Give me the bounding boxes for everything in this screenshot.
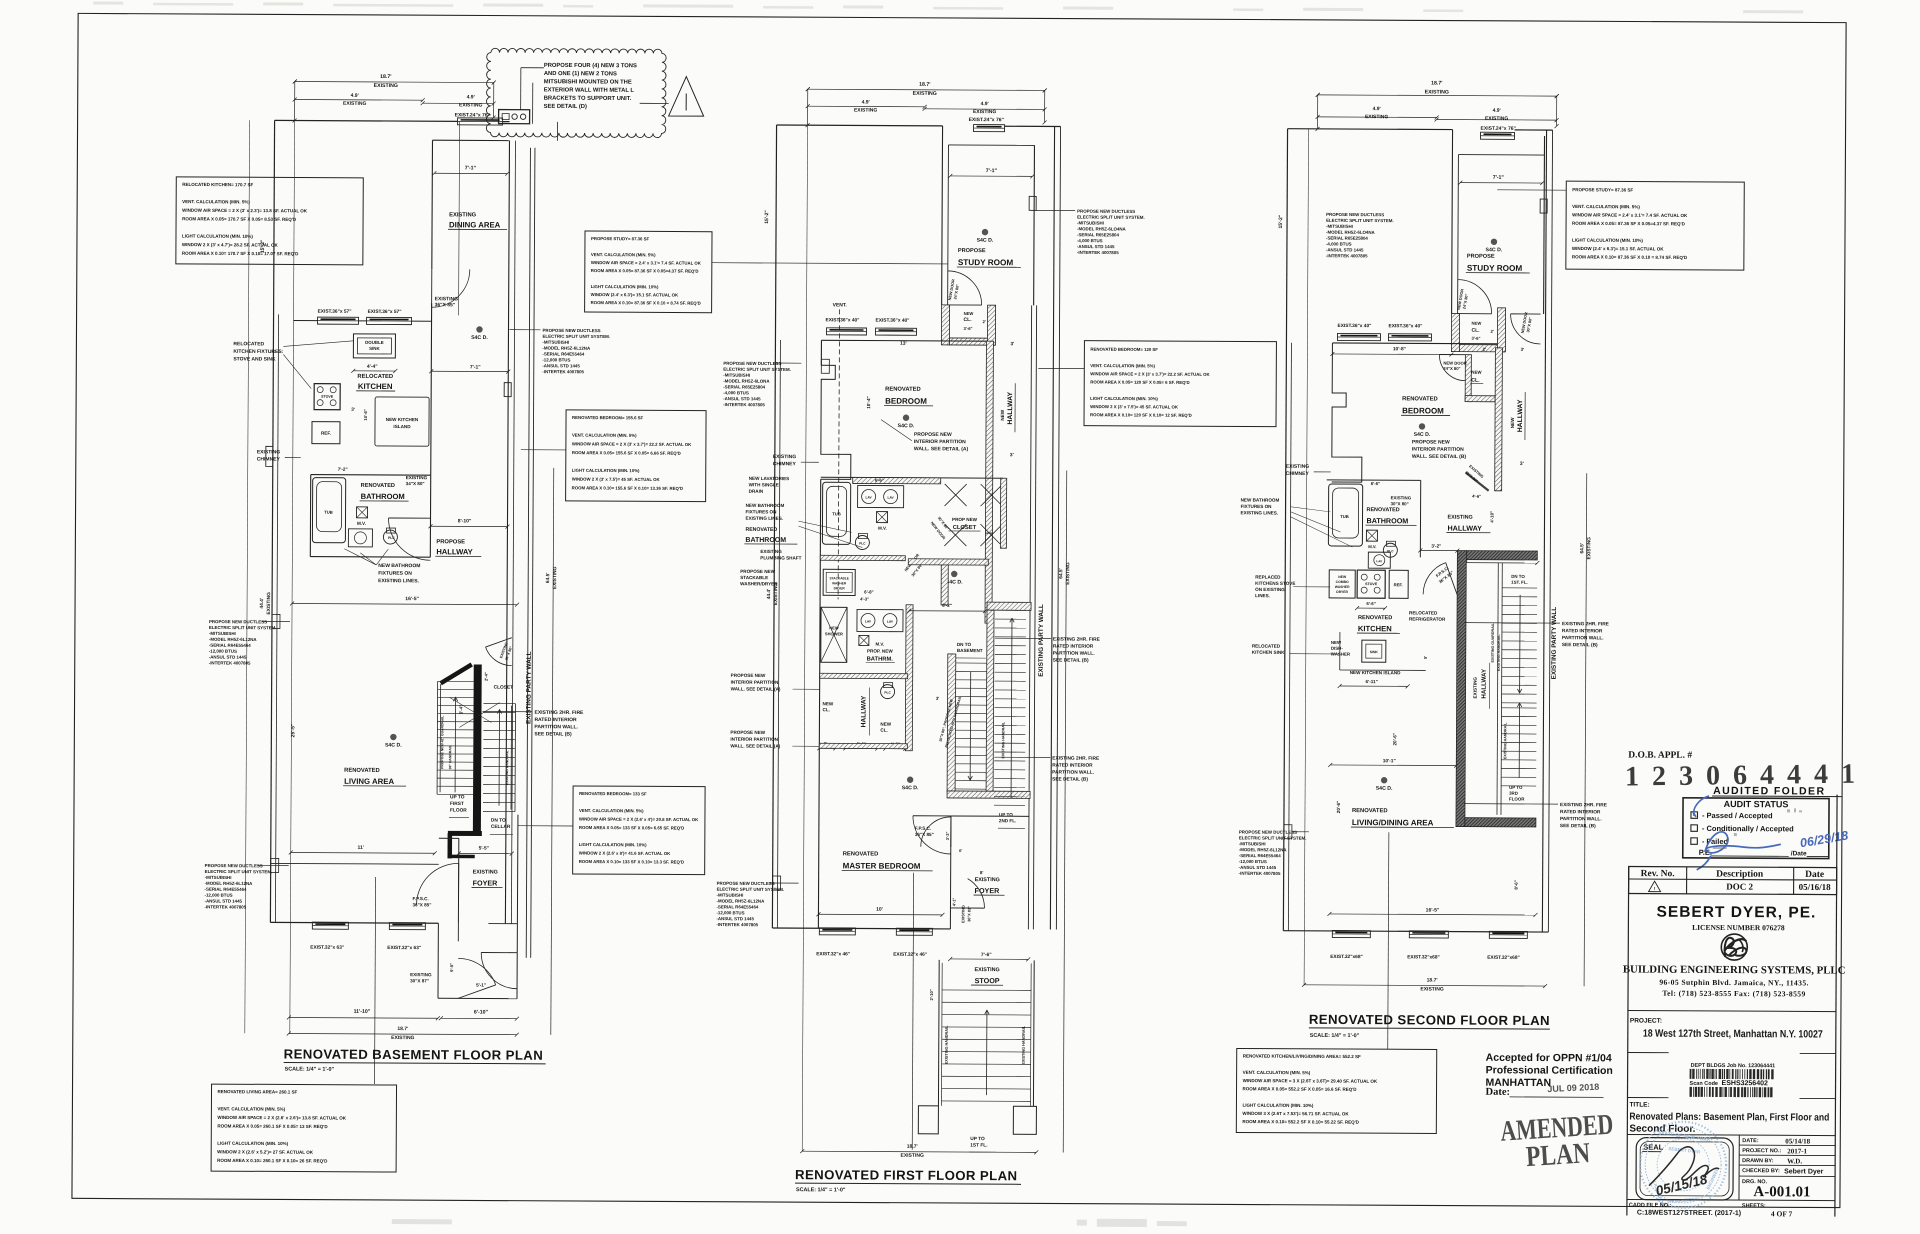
svg-text:64.5': 64.5' xyxy=(1579,543,1585,554)
svg-text:-MITSUBISHI: -MITSUBISHI xyxy=(1077,220,1104,225)
svg-text:NEW KITCHEN: NEW KITCHEN xyxy=(386,417,419,422)
title block right column rows xyxy=(1738,1135,1740,1200)
study closet walls hatched xyxy=(941,305,949,345)
svg-text:ROOM AREA X 0.05= 133 SF X 0.0: ROOM AREA X 0.05= 133 SF X 0.05= 6.65 SF… xyxy=(579,825,684,831)
svg-text:CHECKED BY:: CHECKED BY: xyxy=(1742,1168,1780,1174)
svg-text:3': 3' xyxy=(936,696,940,701)
svg-text:WASHER/DRYER: WASHER/DRYER xyxy=(740,581,778,586)
svg-text:EXISTING: EXISTING xyxy=(975,877,1000,883)
svg-text:2'-10": 2'-10" xyxy=(929,989,934,1000)
svg-text:18.7': 18.7' xyxy=(907,1144,918,1150)
svg-text:-MITSUBISHI: -MITSUBISHI xyxy=(717,893,744,898)
svg-text:-MITSUBISHI: -MITSUBISHI xyxy=(205,875,232,880)
basement stair treads up-run xyxy=(437,681,474,794)
middle stair up run xyxy=(995,609,1026,611)
svg-text:A-001.01: A-001.01 xyxy=(1753,1184,1810,1200)
svg-text:EXISTING: EXISTING xyxy=(459,102,482,108)
svg-text:Accepted for OPPN #1/04: Accepted for OPPN #1/04 xyxy=(1486,1052,1612,1065)
svg-text:PARTITION WALL.: PARTITION WALL. xyxy=(1560,816,1602,822)
washer dryer right xyxy=(1329,570,1355,598)
stoop posts xyxy=(918,1106,938,1134)
svg-text:VENT.: VENT. xyxy=(833,302,848,308)
svg-text:-SERIAL R65E25804: -SERIAL R65E25804 xyxy=(1326,236,1368,241)
svg-text:10'-4": 10'-4" xyxy=(866,396,871,408)
svg-text:-MITSUBISHI: -MITSUBISHI xyxy=(1239,841,1266,846)
svg-text:WINDOW 3 X (2.6T x 7.53')= 56.: WINDOW 3 X (2.6T x 7.53')= 56.71 SF. ACT… xyxy=(1242,1111,1349,1117)
svg-text:NEW: NEW xyxy=(823,701,834,706)
svg-text:CHIMNEY: CHIMNEY xyxy=(257,457,281,463)
svg-text:ELECTRIC SPLIT UNIT SYSTEM.: ELECTRIC SPLIT UNIT SYSTEM. xyxy=(542,334,610,339)
svg-text:VENT. CALCULATION (MIN. 5%): VENT. CALCULATION (MIN. 5%) xyxy=(217,1106,285,1111)
svg-text:8'-6": 8'-6" xyxy=(1514,880,1519,890)
svg-text:-MODEL RH5Z-6LO4NA: -MODEL RH5Z-6LO4NA xyxy=(1077,226,1127,231)
svg-text:CHIMNEY: CHIMNEY xyxy=(1286,471,1310,477)
right bottom windows xyxy=(1332,930,1370,937)
svg-text:UP TO: UP TO xyxy=(450,794,465,800)
master bedroom section line xyxy=(912,873,913,1150)
svg-text:EXISTING HANDRAIL: EXISTING HANDRAIL xyxy=(1001,721,1005,758)
svg-text:SEE DETAIL (B): SEE DETAIL (B) xyxy=(1052,776,1088,782)
svg-text:34"X 80": 34"X 80" xyxy=(406,481,425,486)
blue pen marks audit xyxy=(1694,796,1709,816)
basement stair heavy walls xyxy=(441,664,472,683)
svg-text:LIGHT CALCULATION (MIN. 10%): LIGHT CALCULATION (MIN. 10%) xyxy=(572,468,640,473)
svg-text:5': 5' xyxy=(1423,656,1428,659)
svg-text:MITSUBISHI MOUNTED ON THE: MITSUBISHI MOUNTED ON THE xyxy=(544,79,632,85)
right plan top dims xyxy=(1317,95,1319,129)
svg-text:STOVE: STOVE xyxy=(1365,582,1378,586)
svg-text:ON EXISTING: ON EXISTING xyxy=(1255,587,1285,592)
svg-text:-MODEL RH5Z-6L12NA: -MODEL RH5Z-6L12NA xyxy=(209,637,258,642)
svg-text:RENOVATED KITCHEN/LIVING/DININ: RENOVATED KITCHEN/LIVING/DINING AREA= 55… xyxy=(1243,1053,1361,1059)
svg-text:PROJECT:: PROJECT: xyxy=(1630,1018,1662,1025)
svg-text:PROPOSE STUDY= 87.36 SF: PROPOSE STUDY= 87.36 SF xyxy=(591,236,650,241)
svg-text:INTERIOR PARTITION: INTERIOR PARTITION xyxy=(730,737,778,742)
svg-text:ELECTRIC SPLIT UNIT SYSTEM.: ELECTRIC SPLIT UNIT SYSTEM. xyxy=(723,367,791,372)
svg-text:FLOOR: FLOOR xyxy=(1509,796,1525,801)
svg-text:-MITSUBISHI: -MITSUBISHI xyxy=(209,631,236,636)
svg-text:ELECTRIC SPLIT UNIT SYSTEM.: ELECTRIC SPLIT UNIT SYSTEM. xyxy=(717,887,785,892)
svg-text:PROPOSE: PROPOSE xyxy=(1467,254,1495,260)
svg-text:6'-4": 6'-4" xyxy=(458,705,463,715)
svg-text:WINDOW AIR SPACE = 2 X (3' x 3: WINDOW AIR SPACE = 2 X (3' x 3.7')= 22.2… xyxy=(1090,371,1210,377)
svg-text:EXISTING: EXISTING xyxy=(410,972,432,977)
middle MV2 and bathrm label xyxy=(859,635,869,645)
calc box renovated living area xyxy=(211,1084,396,1172)
svg-text:SCALE: 1/4" = 1'-0": SCALE: 1/4" = 1'-0" xyxy=(1310,1033,1360,1039)
svg-text:3'-6": 3'-6" xyxy=(1471,336,1480,341)
svg-text:/Date: /Date xyxy=(1791,850,1807,857)
svg-text:EXISTING HANDRAIL: EXISTING HANDRAIL xyxy=(1497,634,1501,671)
svg-text:-ANSUL STD 1445: -ANSUL STD 1445 xyxy=(209,654,247,659)
svg-text:ROOM AREA X 0.10= 87.36 SF X 0: ROOM AREA X 0.10= 87.36 SF X 0.10 = 8.74… xyxy=(591,300,701,306)
leader living area to calc box xyxy=(375,877,376,1084)
svg-text:EXISTING 2HR. FIRE: EXISTING 2HR. FIRE xyxy=(1053,636,1101,642)
svg-text:VENT. CALCULATION (MIN. 5%): VENT. CALCULATION (MIN. 5%) xyxy=(572,433,637,438)
svg-text:ROOM AREA X 0.10= 260.1 SF X 0: ROOM AREA X 0.10= 260.1 SF X 0.10= 26 SF… xyxy=(217,1158,328,1164)
svg-text:RENOVATED: RENOVATED xyxy=(361,483,395,489)
svg-text:RELOCATED: RELOCATED xyxy=(233,341,264,347)
svg-text:EXISTING LINES.: EXISTING LINES. xyxy=(746,516,784,521)
dining area door arc xyxy=(432,269,470,307)
ref right xyxy=(1389,570,1408,598)
svg-text:PROPOSE NEW DUCTLESS: PROPOSE NEW DUCTLESS xyxy=(717,881,775,886)
svg-text:NEW: NEW xyxy=(1471,370,1482,375)
middle shower xyxy=(821,607,847,662)
medicine vanity xyxy=(357,507,368,518)
svg-text:-MITSUBISHI: -MITSUBISHI xyxy=(1326,224,1353,229)
svg-text:ROOM AREA X 0.05= 87.36 SF X 0: ROOM AREA X 0.05= 87.36 SF X 0.05=4.37 S… xyxy=(591,268,699,274)
svg-text:4'-3": 4'-3" xyxy=(860,596,869,601)
svg-text:PARTITION WALL.: PARTITION WALL. xyxy=(534,724,578,730)
svg-text:DRAIN: DRAIN xyxy=(749,489,764,494)
svg-text:VENT. CALCULATION (MIN. 5%): VENT. CALCULATION (MIN. 5%) xyxy=(1572,204,1640,209)
svg-text:NEW BATHROOM: NEW BATHROOM xyxy=(746,503,785,508)
svg-text:LIVING/DINING AREA: LIVING/DINING AREA xyxy=(1352,818,1434,827)
svg-text:ROOM AREA X 0.05= 120 SF X 0.0: ROOM AREA X 0.05= 120 SF X 0.05= 6 SF. R… xyxy=(1090,379,1189,385)
right tub xyxy=(1328,484,1362,546)
svg-text:EXIST.36"x 40": EXIST.36"x 40" xyxy=(1389,323,1423,329)
svg-text:NEW: NEW xyxy=(1000,409,1005,420)
svg-text:SEE DETAIL (D): SEE DETAIL (D) xyxy=(544,104,587,110)
svg-text:RATED INTERIOR: RATED INTERIOR xyxy=(1053,643,1094,649)
svg-text:RENOVATED: RENOVATED xyxy=(843,851,879,857)
existing foyer xyxy=(439,837,459,839)
svg-text:4.9': 4.9' xyxy=(1493,108,1501,114)
svg-text:EXIST.24"x 76": EXIST.24"x 76" xyxy=(1481,126,1517,132)
stove xyxy=(314,384,340,410)
svg-text:RATED INTERIOR: RATED INTERIOR xyxy=(1562,628,1603,634)
middle bottom windows xyxy=(819,928,855,935)
svg-text:-MODEL RH5Z-6LONA: -MODEL RH5Z-6LONA xyxy=(723,378,770,383)
svg-text:36"X 85": 36"X 85" xyxy=(915,832,934,837)
svg-text:8': 8' xyxy=(980,870,984,875)
svg-text:EXISTING: EXISTING xyxy=(1586,537,1592,560)
svg-text:18.7': 18.7' xyxy=(380,74,391,80)
svg-text:-ANSUL STD 1445: -ANSUL STD 1445 xyxy=(716,916,754,921)
svg-text:6'-6": 6'-6" xyxy=(875,478,884,483)
svg-text:W.D.: W.D. xyxy=(1787,1157,1802,1165)
svg-text:10'-8": 10'-8" xyxy=(1393,346,1406,352)
svg-text:LIGHT CALCULATION (MIN. 10%): LIGHT CALCULATION (MIN. 10%) xyxy=(1242,1103,1313,1108)
svg-text:EXISTING: EXISTING xyxy=(913,91,937,97)
svg-text:- Passed / Accepted: - Passed / Accepted xyxy=(1702,811,1773,820)
svg-text:64.5': 64.5' xyxy=(545,573,551,584)
svg-text:S4C D.: S4C D. xyxy=(898,423,915,429)
audit status box xyxy=(1683,798,1829,859)
svg-text:S4C D.: S4C D. xyxy=(1414,432,1431,438)
svg-text:HALLWAY: HALLWAY xyxy=(1447,524,1482,533)
right study door + closet xyxy=(1458,280,1492,314)
svg-text:HALLWAY: HALLWAY xyxy=(436,547,472,556)
svg-text:NEW: NEW xyxy=(1472,321,1482,326)
svg-text:LAV: LAV xyxy=(866,496,873,500)
svg-text:NEW: NEW xyxy=(1338,575,1347,579)
svg-text:EXIST.32"x68": EXIST.32"x68" xyxy=(1407,954,1440,960)
svg-text:VENT. CALCULATION (MIN. 5%): VENT. CALCULATION (MIN. 5%) xyxy=(1090,363,1155,368)
middle MV xyxy=(876,512,887,523)
kitchen island right xyxy=(1339,632,1341,670)
svg-text:-INTERTEK 4007805: -INTERTEK 4007805 xyxy=(716,922,758,927)
svg-text:LAV: LAV xyxy=(1376,559,1382,563)
svg-text:EXISTING HANDRAIL: EXISTING HANDRAIL xyxy=(1503,722,1507,759)
svg-text:11'-10": 11'-10" xyxy=(354,1009,371,1015)
svg-text:RENOVATED BEDROOM= 120 SF: RENOVATED BEDROOM= 120 SF xyxy=(1090,347,1158,352)
svg-text:5'-1": 5'-1" xyxy=(476,982,486,987)
svg-text:KITCHEN: KITCHEN xyxy=(1358,624,1392,633)
svg-text:EXISTING: EXISTING xyxy=(1286,464,1309,470)
leader living dining to calc box xyxy=(1388,832,1389,1049)
svg-text:WINDOW (2.4' x 6.3')= 15.1 SF.: WINDOW (2.4' x 6.3')= 15.1 SF. ACTUAL OK xyxy=(1572,246,1664,251)
middle bathroom1 xyxy=(821,476,941,479)
svg-text:-12,000 BTUS: -12,000 BTUS xyxy=(209,649,237,654)
svg-text:-INTERTEK 4007805: -INTERTEK 4007805 xyxy=(209,660,251,665)
right bathroom xyxy=(1327,479,1421,481)
revision triangle xyxy=(1649,881,1661,892)
svg-text:EXISTING: EXISTING xyxy=(473,869,498,875)
svg-text:-ANSUL STD 1445: -ANSUL STD 1445 xyxy=(542,363,580,368)
svg-text:-ANSUL STD 1445: -ANSUL STD 1445 xyxy=(1326,247,1364,252)
svg-text:ESHS3256402: ESHS3256402 xyxy=(1722,1080,1768,1087)
svg-text:6'-11": 6'-11" xyxy=(1366,679,1378,684)
svg-text:CLOSET: CLOSET xyxy=(494,685,514,691)
svg-text:3': 3' xyxy=(1011,341,1015,347)
svg-text:RENOVATED: RENOVATED xyxy=(1367,507,1400,513)
svg-text:ISLAND: ISLAND xyxy=(393,424,411,429)
svg-text:EXISTING 2HR. FIRE: EXISTING 2HR. FIRE xyxy=(1562,621,1610,627)
svg-text:EXISTING: EXISTING xyxy=(1425,89,1449,95)
svg-text:6'-10": 6'-10" xyxy=(474,1009,489,1015)
right bedroom xyxy=(1332,342,1497,345)
svg-text:13': 13' xyxy=(900,341,907,347)
scanner smudge bottom xyxy=(392,1215,1187,1228)
svg-text:9'-5": 9'-5" xyxy=(449,963,454,972)
svg-text:ELECTRIC SPLIT UNIT SYSTEM.: ELECTRIC SPLIT UNIT SYSTEM. xyxy=(1239,835,1307,840)
svg-text:18.7': 18.7' xyxy=(1427,977,1438,983)
svg-text:4.9': 4.9' xyxy=(862,99,870,105)
svg-text:-12,000 BTUS: -12,000 BTUS xyxy=(1239,859,1267,864)
svg-text:EXISTING: EXISTING xyxy=(1473,677,1478,699)
svg-text:EXISTING HANDRAIL: EXISTING HANDRAIL xyxy=(945,1025,949,1064)
svg-text:PARTITION WALL.: PARTITION WALL. xyxy=(1562,635,1604,641)
svg-text:INTERIOR PARTITION: INTERIOR PARTITION xyxy=(1412,447,1464,453)
S4C detector left upper xyxy=(476,326,482,332)
svg-text:Scan Code: Scan Code xyxy=(1690,1081,1718,1087)
svg-text:WASHER: WASHER xyxy=(1335,585,1350,589)
basement bottom windows xyxy=(312,922,348,929)
svg-text:LIGHT CALCULATION (MIN. 10%): LIGHT CALCULATION (MIN. 10%) xyxy=(182,234,253,239)
middle bathroom1 bottom wall xyxy=(820,556,905,558)
svg-text:3': 3' xyxy=(1521,347,1525,352)
right angled door xyxy=(1466,473,1489,491)
svg-text:16'-5": 16'-5" xyxy=(405,596,419,602)
svg-text:RENOVATED: RENOVATED xyxy=(1352,808,1388,814)
svg-text:EXIST.32"x68": EXIST.32"x68" xyxy=(1330,954,1363,960)
svg-text:PROPOSE STUDY= 87.36 SF: PROPOSE STUDY= 87.36 SF xyxy=(1572,187,1633,192)
svg-text:DEPT BLDGS Job No. 123064441: DEPT BLDGS Job No. 123064441 xyxy=(1691,1063,1776,1069)
calc box relocated kitchen xyxy=(176,177,363,265)
svg-text:CADD FILE NO.:: CADD FILE NO.: xyxy=(1629,1203,1672,1209)
svg-text:2': 2' xyxy=(983,319,986,324)
svg-text:EXISTING: EXISTING xyxy=(1420,986,1443,992)
svg-text:RATED INTERIOR: RATED INTERIOR xyxy=(1560,809,1601,815)
svg-text:-SERIAL R65E25804: -SERIAL R65E25804 xyxy=(1077,232,1119,237)
svg-text:-MODEL RH5Z-6LO4NA: -MODEL RH5Z-6LO4NA xyxy=(1326,230,1376,235)
svg-text:3': 3' xyxy=(1520,461,1524,467)
svg-text:25'-5": 25'-5" xyxy=(290,723,296,737)
left plan dimension 4.9 EXISTING x2 xyxy=(295,99,423,102)
svg-text:EXISTING: EXISTING xyxy=(1391,495,1412,500)
middle stair dn run xyxy=(947,654,956,792)
svg-text:RELOCATED: RELOCATED xyxy=(357,374,393,380)
svg-text:WINDOW (2.4' x 6.3')= 15.1 SF.: WINDOW (2.4' x 6.3')= 15.1 SF. ACTUAL OK xyxy=(591,292,679,297)
svg-text:WINDOW 2 X (2.6' x 8')= 41.6 S: WINDOW 2 X (2.6' x 8')= 41.6 SF. ACTUAL … xyxy=(579,851,671,856)
svg-text:C:18WEST127STREET. (2017-1): C:18WEST127STREET. (2017-1) xyxy=(1637,1210,1741,1218)
svg-text:30"X 80": 30"X 80" xyxy=(1391,501,1409,506)
svg-text:SEE DETAIL (B): SEE DETAIL (B) xyxy=(1560,823,1596,829)
svg-text:RELOCATED: RELOCATED xyxy=(1409,610,1438,615)
svg-text:NEW DOOR: NEW DOOR xyxy=(1443,361,1467,366)
svg-text:SINK: SINK xyxy=(369,346,380,351)
svg-text:NEW: NEW xyxy=(1331,640,1342,645)
svg-text:RELOCATED KITCHEN= 170.7 SF: RELOCATED KITCHEN= 170.7 SF xyxy=(182,182,253,187)
svg-text:-INTERTEK 4007805: -INTERTEK 4007805 xyxy=(1077,250,1119,255)
renovated living area xyxy=(390,734,396,740)
svg-text:-INTERTEK 4007805: -INTERTEK 4007805 xyxy=(1239,871,1281,876)
svg-text:MASTER BEDROOM: MASTER BEDROOM xyxy=(843,861,921,870)
svg-text:-4,000 BTUS: -4,000 BTUS xyxy=(1077,238,1103,243)
svg-text:SEBERT DYER, PE.: SEBERT DYER, PE. xyxy=(1656,904,1816,922)
svg-text:BRACKETS TO SUPPORT UNIT.: BRACKETS TO SUPPORT UNIT. xyxy=(544,96,632,102)
svg-text:ROOM AREA X 0.10= 120 SF X 0.1: ROOM AREA X 0.10= 120 SF X 0.10= 12 SF. … xyxy=(1090,412,1192,418)
scanner noise top xyxy=(93,1,1803,13)
svg-text:WINDOW AIR SPACE = 2.4' x 3.1': WINDOW AIR SPACE = 2.4' x 3.1'= 7.4 SF. … xyxy=(591,260,702,266)
svg-text:FIXTURES ON: FIXTURES ON xyxy=(746,509,778,514)
svg-text:4'-4": 4'-4" xyxy=(367,364,378,370)
svg-text:PROPOSE NEW DUCTLESS: PROPOSE NEW DUCTLESS xyxy=(1077,209,1135,214)
right stair treads xyxy=(1497,563,1498,815)
condenser unit on exterior wall xyxy=(499,110,530,124)
svg-text:18.7': 18.7' xyxy=(919,82,930,88)
svg-text:VENT. CALCULATION (MIN. 5%): VENT. CALCULATION (MIN. 5%) xyxy=(182,199,250,204)
svg-text:WINDOW AIR SPACE = 3 X (2.6T x: WINDOW AIR SPACE = 3 X (2.6T x 3.6T)= 29… xyxy=(1243,1078,1378,1084)
svg-text:S4C D.: S4C D. xyxy=(902,785,919,791)
svg-text:STOVE AND SINK: STOVE AND SINK xyxy=(233,356,276,362)
title block outer borders xyxy=(1627,867,1629,1216)
svg-text:AND ONE (1) NEW 2 TONS: AND ONE (1) NEW 2 TONS xyxy=(544,71,617,77)
svg-text:BUILDING ENGINEERING SYSTEMS,: BUILDING ENGINEERING SYSTEMS, PLLC xyxy=(1623,963,1846,976)
svg-text:-INTERTEK 4007805: -INTERTEK 4007805 xyxy=(542,369,584,374)
toilet xyxy=(383,530,397,544)
svg-text:3'-2": 3'-2" xyxy=(1431,543,1441,548)
svg-text:EXISTING: EXISTING xyxy=(854,107,877,113)
svg-text:FIRST: FIRST xyxy=(450,801,464,807)
svg-text:ROOM AREA X 0.05= 170.7 SF X 0: ROOM AREA X 0.05= 170.7 SF X 0.05= 8.53 … xyxy=(182,216,297,222)
svg-text:HALLWAY: HALLWAY xyxy=(1007,391,1014,424)
svg-text:STUDY ROOM: STUDY ROOM xyxy=(1467,264,1523,273)
svg-text:3': 3' xyxy=(1010,452,1014,458)
svg-text:EXISTING: EXISTING xyxy=(961,905,965,923)
calc box renovated bedroom 155.6 xyxy=(566,410,706,502)
svg-text:10': 10' xyxy=(876,907,883,913)
kitchen right wall xyxy=(430,303,433,475)
svg-text:05/16/18: 05/16/18 xyxy=(1799,882,1832,892)
left plan rear window 24x76 xyxy=(458,118,503,125)
svg-text:PROPOSE NEW: PROPOSE NEW xyxy=(731,673,766,678)
svg-text:LICENSE NUMBER 076278: LICENSE NUMBER 076278 xyxy=(1692,923,1785,932)
svg-text:SHEETS:: SHEETS: xyxy=(1742,1203,1766,1209)
svg-text:CL.: CL. xyxy=(964,317,973,323)
svg-text:18.7': 18.7' xyxy=(397,1026,408,1032)
svg-text:RENOVATED BASEMENT FLOOR PLAN: RENOVATED BASEMENT FLOOR PLAN xyxy=(284,1046,544,1062)
svg-text:4'-10": 4'-10" xyxy=(1490,511,1495,523)
svg-text:BASEMENT: BASEMENT xyxy=(957,648,983,653)
svg-text:HALLWAY: HALLWAY xyxy=(1481,668,1488,699)
middle bedroom walls xyxy=(821,339,987,342)
svg-text:PLC: PLC xyxy=(884,691,891,695)
svg-text:EXISTING: EXISTING xyxy=(773,454,796,460)
svg-text:PROPOSE NEW DUCTLESS: PROPOSE NEW DUCTLESS xyxy=(542,328,600,333)
svg-text:05/15/18: 05/15/18 xyxy=(1654,1171,1709,1198)
svg-text:RENOVATED SECOND FLOOR PLAN: RENOVATED SECOND FLOOR PLAN xyxy=(1309,1012,1550,1028)
svg-text:EXIST.36"x 40": EXIST.36"x 40" xyxy=(1338,323,1372,329)
svg-text:WINDOW AIR SPACE = 2 X (3' x 3: WINDOW AIR SPACE = 2 X (3' x 3.7')= 22.2… xyxy=(572,441,692,447)
svg-text:-SERIAL R64E55464: -SERIAL R64E55464 xyxy=(205,887,247,892)
svg-text:15'-2": 15'-2" xyxy=(1278,214,1284,228)
svg-text:REF.: REF. xyxy=(1394,582,1403,587)
svg-text:4'-6": 4'-6" xyxy=(1472,494,1481,499)
svg-text:8'-10": 8'-10" xyxy=(458,518,472,524)
svg-text:STACKABLE: STACKABLE xyxy=(829,576,848,580)
svg-text:CL.: CL. xyxy=(880,728,887,733)
svg-text:3RD: 3RD xyxy=(1509,791,1518,796)
svg-text:TUB: TUB xyxy=(324,510,333,515)
svg-text:PROPOSE NEW DUCTLESS: PROPOSE NEW DUCTLESS xyxy=(1326,212,1384,217)
svg-text:EXISTING: EXISTING xyxy=(449,212,477,218)
svg-text:WINDOW AIR SPACE = 2 X (3' x 2: WINDOW AIR SPACE = 2 X (3' x 2.3')= 13.8… xyxy=(182,208,308,214)
svg-text:6'-6": 6'-6" xyxy=(1371,481,1381,486)
svg-text:EXISTING: EXISTING xyxy=(1485,116,1508,122)
svg-text:-12,000 BTUS: -12,000 BTUS xyxy=(716,910,744,915)
svg-text:M.V.: M.V. xyxy=(357,521,366,526)
vestibule door arcs xyxy=(458,958,496,984)
svg-text:WINDOW 2 X (3' x 4.7')= 28.2 S: WINDOW 2 X (3' x 4.7')= 28.2 SF. ACTUAL … xyxy=(182,242,279,248)
svg-text:PROPOSE FOUR (4) NEW 3 TONS: PROPOSE FOUR (4) NEW 3 TONS xyxy=(544,63,637,69)
svg-text:EXISTING PARTY WALL: EXISTING PARTY WALL xyxy=(1551,607,1558,680)
svg-text:REFRIGERATOR: REFRIGERATOR xyxy=(1409,617,1446,622)
svg-text:F.P.S.C.: F.P.S.C. xyxy=(413,896,429,901)
svg-text:- Conditionally / Accepted: - Conditionally / Accepted xyxy=(1702,824,1794,833)
svg-text:ROOM AREA X 0.05= 552.2 SF X 0: ROOM AREA X 0.05= 552.2 SF X 0.05= 16.6 … xyxy=(1243,1086,1358,1092)
svg-text:EXISTING LINES.: EXISTING LINES. xyxy=(378,578,419,584)
svg-text:BATHROOM: BATHROOM xyxy=(361,492,405,501)
svg-text:WINDOW 2 X (2.6' x 5.2')= 27 S: WINDOW 2 X (2.6' x 5.2')= 27 SF. ACTUAL … xyxy=(217,1149,314,1155)
svg-text:NEW: NEW xyxy=(1510,417,1515,428)
svg-text:- Failed: - Failed xyxy=(1702,837,1729,846)
svg-text:EXISTING: EXISTING xyxy=(343,101,366,107)
new kitchen island xyxy=(375,397,429,446)
svg-text:WITH SINGLE: WITH SINGLE xyxy=(749,482,779,487)
svg-text:REF.: REF. xyxy=(321,431,331,436)
svg-text:PROPOSE NEW DUCTLESS: PROPOSE NEW DUCTLESS xyxy=(723,361,781,366)
svg-text:DOC 2: DOC 2 xyxy=(1726,882,1753,892)
svg-text:7'-2": 7'-2" xyxy=(338,467,348,472)
svg-text:SHOWER: SHOWER xyxy=(825,631,843,636)
svg-text:SEE DETAIL (B): SEE DETAIL (B) xyxy=(534,731,572,737)
svg-text:7'-6": 7'-6" xyxy=(981,952,992,958)
svg-text:2': 2' xyxy=(1490,329,1493,334)
svg-text:EXISTING HANDRAIL: EXISTING HANDRAIL xyxy=(1022,1025,1026,1064)
